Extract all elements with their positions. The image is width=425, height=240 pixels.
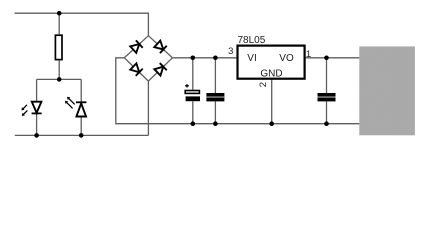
svg-text:3: 3 [228,46,233,57]
svg-text:GND: GND [260,68,282,79]
svg-text:1: 1 [306,49,311,60]
svg-text:78L05: 78L05 [238,35,266,46]
svg-text:2: 2 [258,82,269,87]
svg-text:VI: VI [247,53,256,64]
svg-text:VO: VO [279,53,294,64]
